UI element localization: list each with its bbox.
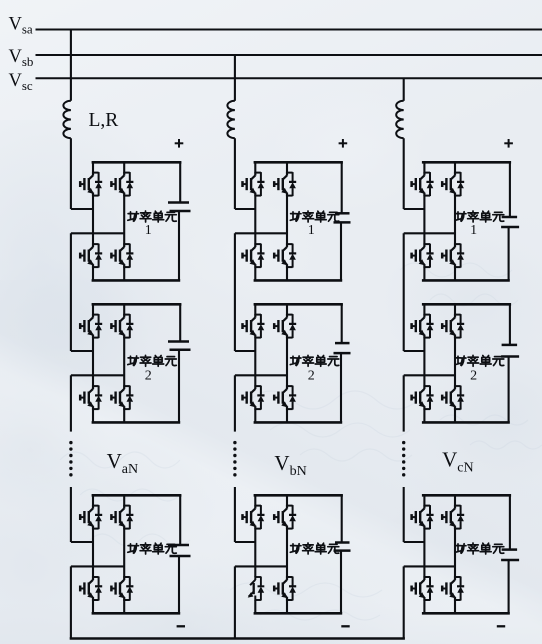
svg-text:1: 1 bbox=[308, 223, 315, 238]
svg-text:2: 2 bbox=[308, 368, 315, 383]
svg-text:1: 1 bbox=[145, 223, 152, 238]
svg-text:2: 2 bbox=[470, 368, 477, 383]
svg-text:2: 2 bbox=[145, 368, 152, 383]
svg-text:1: 1 bbox=[470, 223, 477, 238]
svg-text:L,R: L,R bbox=[89, 110, 119, 131]
